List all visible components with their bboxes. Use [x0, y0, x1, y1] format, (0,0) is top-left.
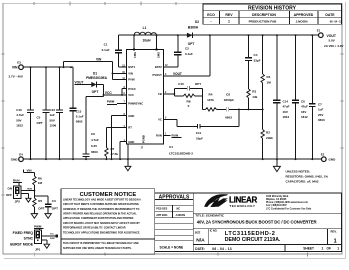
svg-text:APPROVED: APPROVED: [294, 13, 314, 17]
svg-text:33pF: 33pF: [254, 58, 261, 62]
wire GND rail: [23, 158, 322, 160]
title block: [193, 193, 341, 252]
svg-text:3300pF: 3300pF: [224, 98, 235, 102]
svg-text:LTC Confidential-For Customer: LTC Confidential-For Customer Use Only: [266, 207, 312, 210]
svg-text:13k: 13k: [252, 95, 257, 99]
resistor R3: [247, 89, 258, 110]
svg-text:ECO: ECO: [207, 13, 215, 17]
svg-text:L1: L1: [143, 26, 147, 30]
svg-text:0805: 0805: [76, 120, 83, 124]
svg-text:JP1: JP1: [35, 247, 41, 251]
wire top VOUT rail: [119, 35, 319, 49]
capacitor C9: [82, 95, 103, 159]
svg-text:RUN: RUN: [172, 134, 179, 138]
svg-text:C4: C4: [254, 53, 258, 57]
svg-text:C12: C12: [50, 108, 56, 112]
svg-text:FIXED FREQ: FIXED FREQ: [13, 231, 34, 235]
svg-text:1812: 1812: [283, 115, 290, 119]
svg-text:GND: GND: [128, 140, 134, 144]
ground at JP2 pin3: [21, 193, 31, 202]
svg-text:C1: C1: [104, 43, 108, 47]
svg-text:PGND: PGND: [142, 135, 146, 143]
svg-text:RESISTORS: OHMS, 0402, 1%: RESISTORS: OHMS, 0402, 1%: [286, 175, 329, 179]
svg-text:SW1: SW1: [133, 52, 137, 58]
svg-text:PERFORMANCE OR RELIABILITY. C: PERFORMANCE OR RELIABILITY. CONTACT LINE…: [63, 227, 126, 230]
svg-text:25V: 25V: [318, 113, 323, 117]
svg-text:OF: OF: [327, 247, 331, 251]
svg-text:1: 1: [337, 247, 339, 251]
svg-text:Fax: (408)434-0507: Fax: (408)434-0507: [266, 204, 287, 207]
svg-text:PCB DES: PCB DES: [156, 208, 167, 211]
svg-text:LINEAR TECHNOLOGY HAS MADE A B: LINEAR TECHNOLOGY HAS MADE A BEST EFFORT…: [63, 198, 141, 201]
svg-text:4.7uF: 4.7uF: [16, 113, 24, 117]
svg-text:R1: R1: [267, 75, 271, 79]
svg-text:PWM: PWM: [107, 100, 115, 104]
svg-text:GND: GND: [128, 114, 134, 118]
svg-text:10uH: 10uH: [142, 39, 151, 43]
svg-text:LTC3115EDHD-2: LTC3115EDHD-2: [169, 151, 193, 155]
svg-text:VOUT: VOUT: [327, 34, 337, 38]
svg-text:C10: C10: [16, 108, 22, 112]
svg-text:47.5k: 47.5k: [111, 152, 119, 156]
svg-text:RT: RT: [128, 126, 132, 130]
svg-text:PVIN: PVIN: [128, 78, 134, 82]
ground symbol output: [273, 159, 280, 171]
wire GND pin 8: [112, 116, 127, 160]
capacitor C15 (OPT): [174, 82, 202, 109]
svg-text:BST2: BST2: [155, 65, 162, 69]
svg-text:C15: C15: [178, 82, 184, 86]
resistor R1: [261, 35, 271, 109]
svg-text:C7: C7: [318, 103, 322, 107]
svg-text:OPT: OPT: [195, 82, 201, 86]
resistor R7: [105, 128, 127, 160]
svg-text:JP2: JP2: [15, 200, 21, 204]
svg-text:VERIFY PROPER AND RELIABLE OPE: VERIFY PROPER AND RELIABLE OPERATION IN …: [63, 213, 137, 216]
svg-text:REV.: REV.: [331, 230, 337, 234]
net label VOUT at pin 3: [164, 34, 211, 76]
wire VIN rail: [23, 66, 73, 68]
svg-text:DESCRIPTION: DESCRIPTION: [252, 13, 276, 17]
svg-text:PVCC: PVCC: [128, 87, 136, 91]
net label RUN at JP2: [13, 179, 22, 186]
capacitor C6: [292, 35, 308, 159]
svg-text:C5: C5: [37, 116, 41, 120]
title text: [195, 214, 317, 225]
svg-text:1uF: 1uF: [318, 108, 324, 112]
svg-text:VIN: VIN: [128, 72, 133, 76]
svg-text:50V: 50V: [16, 118, 21, 122]
svg-text:IC NO.: IC NO.: [210, 230, 218, 233]
svg-text:REVISION HISTORY: REVISION HISTORY: [248, 6, 297, 12]
svg-text:47uF: 47uF: [301, 105, 308, 109]
svg-text:C8: C8: [226, 93, 230, 97]
svg-text:DEMO CIRCUIT 2119A.: DEMO CIRCUIT 2119A.: [225, 237, 281, 243]
diode D2 B360A (OPT): [187, 20, 199, 46]
svg-text:6.3V: 6.3V: [91, 144, 97, 148]
svg-text:C14: C14: [283, 100, 289, 104]
date / sheet row: [195, 247, 339, 251]
capacitor C8: [217, 93, 263, 120]
terminal E2 GND: [321, 153, 336, 162]
svg-text:BST1: BST1: [128, 65, 135, 69]
svg-text:CAPACITORS: uF, 0402: CAPACITORS: uF, 0402: [286, 180, 319, 184]
svg-text:C2: C2: [185, 46, 189, 50]
svg-text:2A VIN > 4.0V: 2A VIN > 4.0V: [324, 44, 344, 48]
node dots FB line: [238, 108, 264, 110]
svg-text:OPT: OPT: [92, 90, 99, 94]
svg-text:40V, 2A SYNCHRONOUS BUCK BOOST: 40V, 2A SYNCHRONOUS BUCK BOOST DC / DC C…: [197, 219, 318, 224]
resistor R8: [174, 94, 202, 108]
svg-text:OPT: OPT: [37, 121, 43, 125]
resistor R5 (OPT): [31, 191, 44, 219]
svg-text:VIN: VIN: [12, 66, 18, 70]
svg-text:OPT: OPT: [188, 42, 195, 46]
svg-text:TECHNOLOGY: TECHNOLOGY: [229, 204, 256, 208]
svg-text:OPT: OPT: [52, 206, 58, 210]
svg-text:RUN: RUN: [13, 179, 20, 183]
svg-text:R2: R2: [266, 131, 270, 135]
svg-text:06 - 04 - 13: 06 - 04 - 13: [330, 20, 343, 24]
size / ic no / rev cells: [195, 230, 337, 245]
svg-text:PRODUCTION FAB: PRODUCTION FAB: [249, 20, 278, 24]
svg-text:-: -: [210, 20, 211, 24]
terminal E4 GND: [11, 153, 24, 162]
svg-text:N/A: N/A: [196, 238, 205, 244]
svg-text:BURST MODE: BURST MODE: [10, 243, 34, 247]
svg-text:249k: 249k: [266, 136, 273, 140]
svg-text:E1: E1: [317, 29, 321, 33]
resistor R4: [202, 93, 216, 112]
svg-text:1: 1: [228, 20, 230, 24]
svg-text:1812: 1812: [301, 115, 308, 119]
svg-text:1uF: 1uF: [50, 113, 56, 117]
svg-text:U1: U1: [169, 145, 173, 149]
capacitor C4: [245, 35, 261, 89]
resistor R6: [33, 172, 43, 190]
svg-text:SCALE = NONE: SCALE = NONE: [160, 245, 184, 249]
svg-text:J.NOON: J.NOON: [296, 20, 309, 24]
svg-text:0.1uF: 0.1uF: [102, 48, 110, 52]
svg-text:C6: C6: [301, 100, 305, 104]
svg-text:VCC: VCC: [128, 93, 134, 97]
svg-text:B360A: B360A: [188, 26, 199, 30]
net label PWM at pin 7: [107, 100, 127, 105]
svg-text:GND: GND: [329, 158, 337, 162]
svg-text:16V: 16V: [283, 110, 288, 114]
svg-text:R6: R6: [38, 176, 42, 180]
capacitor C10: [16, 67, 34, 159]
svg-text:5.0V: 5.0V: [329, 39, 336, 43]
svg-text:D2: D2: [195, 20, 199, 24]
svg-text:0603: 0603: [91, 150, 98, 154]
svg-text:PWM: PWM: [50, 238, 55, 240]
svg-text:DATE: DATE: [325, 13, 335, 17]
svg-text:VC: VC: [158, 118, 162, 122]
svg-text:CIRCUIT BOARD LAYOUT MAY SIGNI: CIRCUIT BOARD LAYOUT MAY SIGNIFICANTLY A…: [63, 222, 140, 225]
svg-text:4.7uF: 4.7uF: [91, 138, 99, 142]
svg-text:APPLICATION. COMPONENT SUBSTI: APPLICATION. COMPONENT SUBSTITUTION AND …: [63, 217, 134, 220]
jumper JP2: [6, 186, 21, 204]
svg-text:1206: 1206: [50, 124, 57, 128]
Linear Technology logo: [204, 194, 257, 208]
net label RUN at pin 5: [164, 134, 182, 138]
wire JP1 VCC option: [41, 233, 58, 240]
capacitor C2: [164, 35, 194, 67]
terminal E1 VOUT: [317, 29, 345, 48]
svg-text:APP ENG: APP ENG: [156, 214, 167, 217]
svg-text:Milpitas, CA 95035: Milpitas, CA 95035: [266, 198, 287, 201]
svg-text:R3: R3: [252, 90, 256, 94]
wire FB pin 2: [164, 93, 175, 95]
svg-text:PMEG2010EA: PMEG2010EA: [86, 76, 108, 80]
net flag VIN at R6: [24, 169, 35, 173]
svg-text:SW2: SW2: [157, 52, 161, 58]
svg-text:RUN: RUN: [27, 189, 32, 191]
net label PWM at JP1: [34, 225, 44, 231]
title block address: [266, 195, 312, 210]
svg-text:HOWEVER, IT REMAINS THE CUSTOM: HOWEVER, IT REMAINS THE CUSTOMER'S RESPO…: [63, 208, 139, 211]
capacitor C14: [273, 35, 289, 159]
svg-text:FB: FB: [158, 92, 162, 96]
svg-text:0.1uF: 0.1uF: [185, 52, 193, 56]
svg-text:137k: 137k: [207, 98, 214, 102]
svg-text:THIS CIRCUIT IS PROPRIETARY TO: THIS CIRCUIT IS PROPRIETARY TO LINEAR TE…: [63, 242, 139, 245]
svg-text:1: 1: [334, 238, 337, 244]
diode D1 PMEG2010EA: [75, 72, 108, 95]
svg-text:06 - 04 - 13: 06 - 04 - 13: [212, 247, 232, 251]
svg-text:PWM/SYNC: PWM/SYNC: [128, 102, 143, 106]
jumper JP1: [10, 230, 41, 251]
svg-text:OPT: OPT: [38, 206, 44, 210]
approvals box: [155, 193, 194, 252]
svg-text:1M: 1M: [267, 80, 272, 84]
customer notice box: [61, 189, 155, 255]
wire PGND + ground symbol: [125, 144, 131, 171]
svg-text:1: 1: [322, 247, 324, 251]
svg-text:16V: 16V: [301, 110, 306, 114]
node dots GND rail: [30, 158, 314, 160]
capacitor C12: [50, 67, 64, 159]
svg-text:CIRCUIT THAT MEETS CUSTOMER-SU: CIRCUIT THAT MEETS CUSTOMER-SUPPLIED SPE…: [63, 203, 139, 206]
svg-text:R5: R5: [38, 199, 42, 203]
svg-text:1812: 1812: [16, 124, 23, 128]
svg-text:VCC: VCC: [105, 91, 113, 95]
svg-text:50V: 50V: [50, 118, 55, 122]
svg-text:DATE:: DATE:: [195, 247, 205, 251]
svg-text:0603: 0603: [225, 115, 232, 119]
svg-text:R8: R8: [187, 99, 191, 103]
svg-text:E3: E3: [17, 61, 21, 65]
svg-text:1630 McCarthy Blvd.: 1630 McCarthy Blvd.: [266, 195, 289, 198]
ground at JP1: [41, 240, 49, 248]
revision history table: [203, 4, 342, 24]
svg-text:VCC: VCC: [50, 233, 55, 235]
capacitor C13: [69, 67, 84, 159]
note UNLESS NOTED: [286, 169, 329, 183]
capacitor C3 (OPT): [34, 196, 58, 219]
wire RUN node: [21, 189, 35, 192]
svg-text:SYNC: SYNC: [24, 237, 34, 241]
capacitor C1: [102, 35, 127, 67]
svg-text:C9: C9: [91, 132, 95, 136]
svg-text:10pF: 10pF: [196, 136, 203, 140]
wire VIN tap to pins: [64, 58, 127, 80]
svg-text:0.1uF: 0.1uF: [76, 115, 84, 119]
node dots top rail: [133, 34, 313, 36]
svg-text:R7: R7: [111, 147, 115, 151]
svg-text:TITLE: SCHEMATIC: TITLE: SCHEMATIC: [195, 214, 224, 218]
svg-text:TECHNOLOGY APPLICATIONS ENGINE: TECHNOLOGY APPLICATIONS ENGINEERING FOR …: [63, 231, 140, 234]
svg-text:R4: R4: [209, 93, 213, 97]
capacitor C5: [37, 67, 50, 159]
svg-text:VIN: VIN: [96, 58, 102, 62]
svg-text:GND: GND: [11, 158, 19, 162]
svg-text:C13: C13: [76, 110, 82, 114]
svg-text:0: 0: [188, 104, 190, 108]
svg-text:VOUT: VOUT: [75, 81, 84, 85]
svg-text:E4: E4: [19, 153, 23, 157]
svg-text:REV: REV: [225, 13, 233, 17]
wire GND pin 1 + ground: [120, 142, 126, 160]
wire VCC node: [103, 89, 127, 96]
node dots VIN rail: [30, 66, 114, 74]
op IC U1 LTC3115EDHD-2: [122, 48, 193, 155]
svg-text:47uF: 47uF: [283, 105, 290, 109]
svg-text:RUN: RUN: [156, 134, 162, 138]
svg-text:0603: 0603: [318, 118, 325, 122]
svg-text:VOUT: VOUT: [173, 72, 182, 76]
svg-text:ON: ON: [8, 186, 13, 190]
svg-text:SHEET: SHEET: [303, 247, 314, 251]
svg-text:SIZE: SIZE: [195, 232, 201, 235]
inductor L1 10uH: [134, 26, 156, 43]
svg-text:NC: NC: [177, 208, 181, 211]
capacitor C7: [309, 35, 325, 159]
capacitor C11: [164, 109, 240, 140]
svg-text:C11: C11: [196, 131, 202, 135]
svg-text:UNLESS NOTED:: UNLESS NOTED:: [286, 169, 311, 173]
resistor R2: [261, 109, 273, 159]
svg-text:C3: C3: [52, 199, 56, 203]
terminal E3 VIN: [9, 61, 24, 79]
svg-text:2.7V - 40V: 2.7V - 40V: [9, 75, 24, 79]
svg-text:1M: 1M: [38, 181, 43, 185]
svg-text:OFF: OFF: [6, 193, 12, 197]
svg-text:Phone: (408)432-1900 www.line: Phone: (408)432-1900 www.linear.com: [266, 201, 308, 204]
svg-text:J.NOON: J.NOON: [176, 214, 186, 217]
svg-text:E2: E2: [321, 153, 325, 157]
svg-text:PVOUT: PVOUT: [153, 73, 163, 77]
svg-text:CUSTOMER NOTICE: CUSTOMER NOTICE: [80, 192, 137, 198]
svg-text:SUPPLIED FOR USE WITH LINEAR T: SUPPLIED FOR USE WITH LINEAR TECHNOLOGY …: [63, 247, 132, 250]
